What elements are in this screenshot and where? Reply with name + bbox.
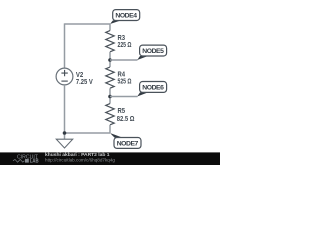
ground	[56, 133, 72, 148]
junction node6	[108, 95, 112, 99]
svg-text:NODE4: NODE4	[115, 13, 137, 20]
wire R5 bottom lead	[109, 125, 111, 133]
label R4 525 ohm	[118, 71, 132, 85]
svg-text:NODE5: NODE5	[142, 48, 164, 55]
node NODE4 flag	[110, 10, 140, 24]
junction node5	[108, 58, 112, 62]
resistor R4	[106, 67, 114, 88]
wire bottom rail	[65, 132, 111, 134]
svg-text:V2: V2	[76, 72, 83, 79]
resistor R5	[106, 104, 114, 125]
svg-text:R3: R3	[118, 35, 126, 42]
svg-text:82.5 Ω: 82.5 Ω	[117, 116, 135, 123]
node NODE5 flag	[137, 45, 166, 60]
wire node6 stub	[110, 96, 138, 98]
label R3 225 ohm	[118, 35, 132, 49]
svg-text:R5: R5	[118, 108, 126, 115]
svg-text:NODE7: NODE7	[117, 141, 139, 148]
svg-text:525 Ω: 525 Ω	[118, 78, 132, 85]
svg-text:LAB: LAB	[30, 159, 39, 165]
wire left rail upper (top corner down to V2 plus terminal)	[64, 23, 66, 68]
wire R3 bottom lead to node5 junction and R4 top lead	[109, 52, 111, 67]
voltage source V2	[56, 68, 73, 85]
node NODE6 flag	[137, 82, 166, 97]
svg-text:7.25 V: 7.25 V	[76, 79, 93, 86]
node NODE7 flag	[110, 133, 141, 148]
label V2 7.25 V	[76, 72, 93, 86]
svg-text:NODE6: NODE6	[142, 85, 164, 92]
wire left rail lower (V2 minus terminal down to bottom rail)	[64, 85, 66, 133]
wire node5 stub	[110, 59, 138, 61]
wire top rail from V2 to R3 top	[65, 23, 111, 25]
svg-text:225 Ω: 225 Ω	[118, 42, 132, 49]
resistor R3	[106, 31, 114, 52]
label R5 82.5 ohm	[117, 108, 135, 123]
wire R4 bottom lead to node6 junction and R5 top lead	[109, 88, 111, 103]
footer watermark bar	[0, 152, 220, 165]
svg-text:http://circuitlab.com/c/6hq8d7: http://circuitlab.com/c/6hq8d7kq4g	[45, 157, 116, 162]
wire R3 top lead	[109, 24, 111, 31]
junction ground node	[63, 131, 67, 135]
